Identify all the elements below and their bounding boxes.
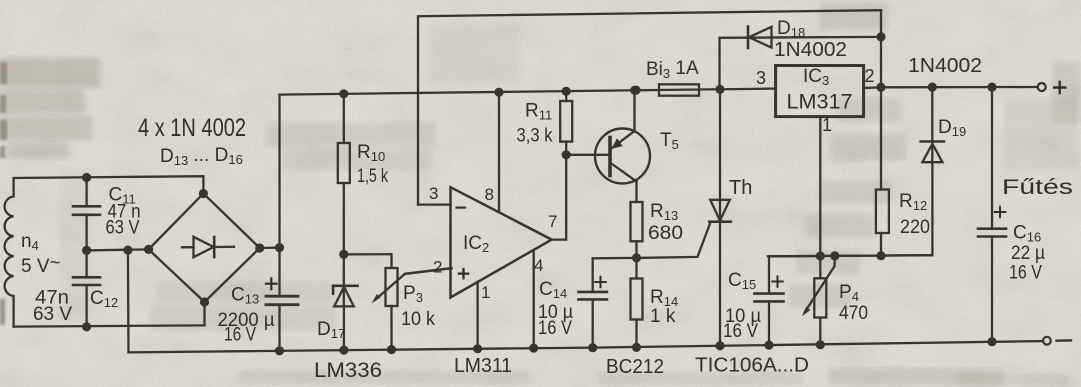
svg-text:16 V: 16 V <box>538 318 572 339</box>
terminal + output <box>1038 83 1046 91</box>
svg-text:4 x 1N 4002: 4 x 1N 4002 <box>138 114 246 142</box>
resistor R14 <box>635 258 637 279</box>
wire - output pin 7 <box>552 155 567 240</box>
node - pin 8 on rail <box>494 88 503 97</box>
svg-text:1N4002: 1N4002 <box>908 55 982 77</box>
wire - main positive rail <box>280 90 660 95</box>
diode D18 <box>720 37 882 90</box>
node - P4 top / pin1 <box>816 251 825 260</box>
capacitor C13 <box>278 95 280 296</box>
node - P4 bottom <box>816 340 825 349</box>
diode D19 <box>931 87 933 162</box>
node - T5 emitter on rail <box>630 86 639 95</box>
node - R11 top <box>562 87 571 96</box>
node - D18 cathode junction <box>876 32 885 41</box>
wire - node to C14 <box>593 257 637 260</box>
capacitor C16 <box>991 87 993 228</box>
svg-text:3: 3 <box>429 184 438 203</box>
svg-text:470: 470 <box>839 303 868 324</box>
bridge rectifier D13-D16 diamond <box>149 194 260 303</box>
label + of C15 <box>772 276 782 286</box>
svg-text:16 V: 16 V <box>1009 263 1042 284</box>
svg-text:8: 8 <box>485 185 494 204</box>
node - C15 bottom <box>764 341 773 350</box>
node - D19 top <box>928 83 937 92</box>
svg-text:BC212: BC212 <box>606 356 664 378</box>
potentiometer P4 <box>819 256 821 278</box>
svg-text:2: 2 <box>433 258 442 277</box>
svg-text:16 V: 16 V <box>723 321 758 342</box>
pin 4 wire <box>533 250 535 348</box>
node - AC input branch <box>123 246 132 255</box>
wire - transformer top lead to bridge top <box>14 176 204 193</box>
svg-text:1: 1 <box>481 283 490 302</box>
resistor R13 <box>631 202 643 241</box>
P4 wiper arrow <box>805 256 835 313</box>
node - P3 bottom <box>387 345 396 354</box>
node - rail right of fuse <box>715 85 724 94</box>
pin 1 wire <box>476 282 478 349</box>
svg-text:680: 680 <box>648 223 683 244</box>
resistor R10 <box>343 94 345 143</box>
zener D17 (LM336) <box>343 254 345 306</box>
wire - IC3 adjust pin 1 <box>819 117 821 256</box>
svg-text:63 V: 63 V <box>33 304 72 325</box>
node - C14 bottom <box>588 343 597 352</box>
node - C16 top <box>987 83 996 92</box>
node - bridge left <box>144 245 153 254</box>
svg-text:Th: Th <box>729 177 752 199</box>
capacitor C12 <box>85 250 87 277</box>
svg-text:22 µ: 22 µ <box>1011 243 1045 264</box>
svg-text:Bi3 1A: Bi3 1A <box>646 58 699 81</box>
svg-text:LM336: LM336 <box>314 359 382 382</box>
node - D17 bottom <box>339 346 348 355</box>
svg-text:3,3 k: 3,3 k <box>517 126 553 147</box>
regulator IC3 box <box>776 66 864 117</box>
wire - bridge right to DC+ node <box>260 246 280 249</box>
svg-text:5 V~: 5 V~ <box>21 253 61 277</box>
node - bridge right <box>255 243 264 252</box>
wire - pin 2 to output rail <box>864 86 881 89</box>
capacitor C11 <box>85 178 87 206</box>
label + of C13 <box>266 278 277 289</box>
fuse Bi3 <box>659 88 699 91</box>
wire - transformer bottom lead <box>14 325 205 326</box>
svg-text:1,5 k: 1,5 k <box>357 166 388 187</box>
svg-text:LM311: LM311 <box>454 355 512 377</box>
plus input marker <box>459 269 468 278</box>
wire - top wire down to output rail <box>880 10 882 189</box>
node - bridge bottom <box>200 297 209 306</box>
wire - bridge bottom return <box>203 302 205 325</box>
svg-text:4: 4 <box>534 256 543 275</box>
node - R10 top <box>339 89 348 98</box>
resistor R11 <box>565 91 567 101</box>
potentiometer P3 <box>386 268 398 306</box>
wire - output positive rail <box>881 86 1038 89</box>
wire - pin 3 entry <box>418 203 451 205</box>
wire - rail after fuse to IC3 pin3 <box>699 87 776 90</box>
label + of C14 <box>595 277 605 287</box>
svg-text:1 k: 1 k <box>650 306 676 327</box>
node - wiper junction <box>830 251 839 260</box>
wire - node to P3 top <box>344 254 392 268</box>
wire - base wire to T5 <box>566 154 610 156</box>
resistor R12 <box>876 190 889 234</box>
node - C11 top junction <box>82 173 91 182</box>
wire - pin 2 entry <box>405 268 452 274</box>
capacitor C14 <box>592 258 594 291</box>
svg-text:LM317: LM317 <box>787 91 853 114</box>
terminal - output <box>1043 337 1051 345</box>
minus input marker <box>457 207 466 209</box>
node - C12 bottom <box>82 322 91 331</box>
wire - feedback from top rail to pin 3 <box>418 10 881 204</box>
pin 8 wire <box>498 92 500 211</box>
wire - gate from R13/R14 node <box>637 223 711 258</box>
svg-text:16 V: 16 V <box>224 325 256 346</box>
node - C16 bottom <box>987 337 996 346</box>
svg-text:Fűtés: Fűtés <box>1002 176 1073 199</box>
svg-text:7: 7 <box>548 212 557 231</box>
node - pin 1 ground <box>473 344 482 353</box>
node - bridge top <box>199 189 208 198</box>
wire - AC return drop <box>127 250 130 352</box>
svg-text:63 V: 63 V <box>106 218 140 239</box>
svg-text:10 k: 10 k <box>401 309 435 330</box>
node - C13 bottom on minus rail <box>275 346 284 355</box>
op-amp IC2 triangle <box>451 187 552 297</box>
node - R11/base/output junction <box>562 150 571 159</box>
svg-text:1: 1 <box>822 115 832 135</box>
svg-text:2: 2 <box>865 66 875 86</box>
svg-text:1N4002: 1N4002 <box>774 39 847 61</box>
node - R14 bottom <box>632 343 641 352</box>
thyristor Th <box>719 89 721 221</box>
diode symbol inside bridge <box>182 246 194 248</box>
node - R13/R14/C14/gate junction <box>632 253 641 262</box>
node - C11/C12 junction <box>82 246 91 255</box>
wire - bottom minus rail <box>129 341 1044 352</box>
wire - mid node to bridge left <box>87 249 149 250</box>
node - R12 bottom <box>876 251 885 260</box>
P3 wiper arrow <box>376 268 452 299</box>
svg-text:3: 3 <box>756 68 766 88</box>
inductor n4 winding <box>5 178 14 327</box>
transistor T5 <box>595 129 650 184</box>
node - output rail / R12 junction <box>876 83 885 92</box>
node - pin 4 ground <box>529 344 538 353</box>
svg-text:TIC106A...D: TIC106A...D <box>695 355 809 377</box>
svg-text:220: 220 <box>900 217 930 238</box>
capacitor C15 <box>769 255 932 293</box>
node - R10/D17/P3 junction <box>339 250 348 259</box>
wire - adjust node <box>768 255 932 256</box>
node - T5 collector rail junction <box>631 86 640 95</box>
label + of C16 <box>995 207 1005 217</box>
node - Th cathode on minus rail <box>715 341 724 350</box>
